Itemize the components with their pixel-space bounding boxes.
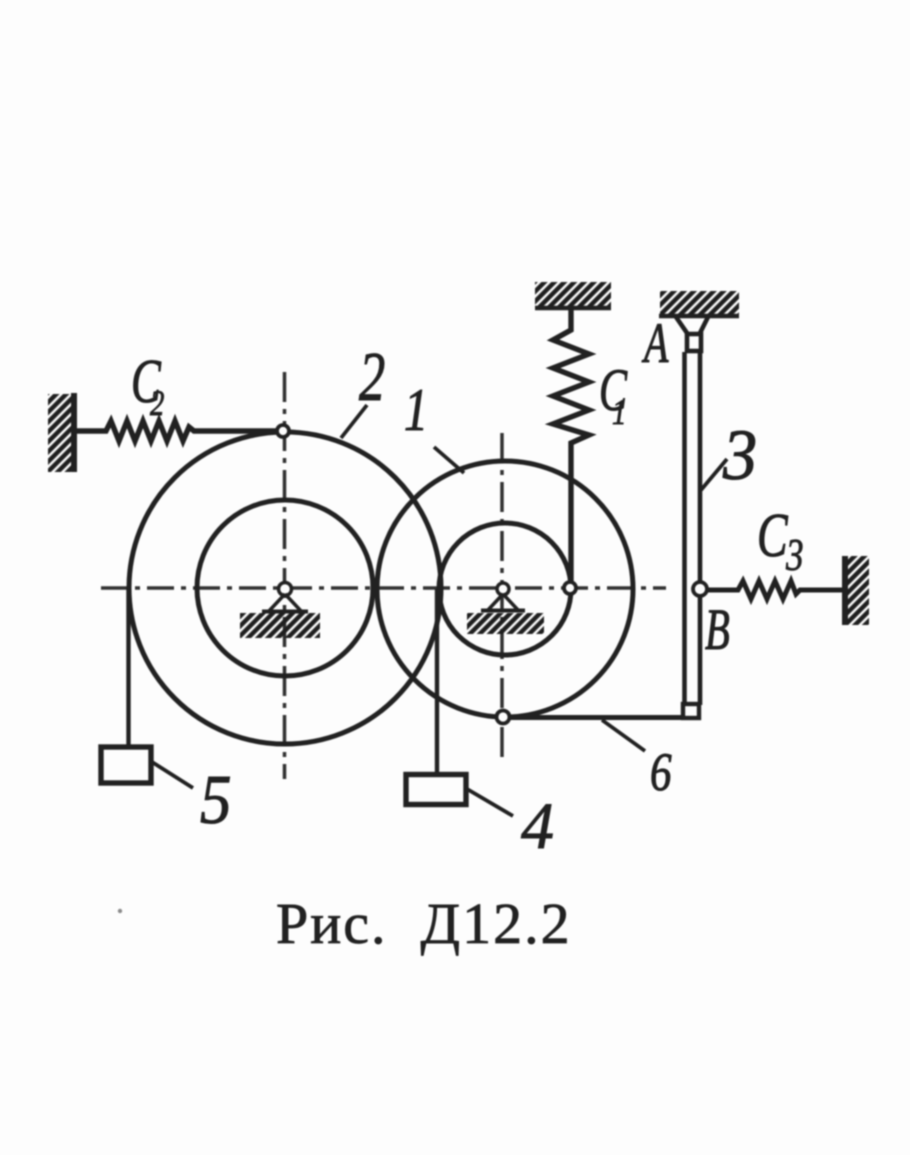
- stray speck: [118, 909, 122, 913]
- caption: [276, 891, 572, 956]
- svg-text:2: 2: [150, 384, 164, 424]
- label C2: [131, 347, 164, 424]
- svg-text:5: 5: [200, 762, 232, 839]
- cord to load 4: [435, 589, 439, 774]
- load block 4: [406, 775, 466, 805]
- label 2: [359, 339, 385, 416]
- label 4: [521, 790, 554, 863]
- pivot pin pulley 1: [467, 583, 544, 634]
- label C3: [757, 500, 804, 580]
- leader line to rod 3: [701, 459, 727, 490]
- centerline vertical pulley 1: [500, 433, 504, 760]
- svg-text:6: 6: [650, 741, 672, 802]
- pulley 2 outer rim: [129, 432, 441, 744]
- pulley 1 inner rim: [439, 523, 571, 655]
- pulley 2 inner rim: [197, 500, 373, 676]
- label B: [705, 597, 730, 662]
- svg-text:C: C: [757, 500, 788, 569]
- pivot cone at A: [676, 317, 708, 351]
- leader line to block 4: [467, 789, 513, 816]
- ceiling anchor for rod 3: [659, 291, 739, 316]
- spring C2: [76, 421, 277, 441]
- cord to load 5: [126, 588, 130, 747]
- svg-text:1: 1: [612, 393, 626, 433]
- spring C3: [707, 581, 843, 599]
- svg-text:A: A: [642, 311, 670, 375]
- pivot pin pulley 2: [240, 583, 320, 639]
- leader line to rod 6: [602, 720, 645, 751]
- label 1: [404, 377, 428, 443]
- label C1: [599, 358, 627, 433]
- node: C1 attachment on pulley 1 inner rim: [564, 582, 576, 594]
- svg-text:3: 3: [785, 530, 803, 580]
- wall anchor right: [845, 556, 869, 625]
- rod 3: [685, 352, 701, 705]
- leader line to block 5: [152, 762, 193, 788]
- label 5: [200, 762, 232, 839]
- svg-text:Рис. Д12.2: Рис. Д12.2: [276, 891, 572, 956]
- svg-text:3: 3: [722, 415, 757, 495]
- ceiling anchor for spring C1: [535, 282, 611, 308]
- rod 3 bottom block: [683, 704, 699, 718]
- pulley 1 outer rim: [377, 461, 633, 717]
- centerline vertical pulley 2: [283, 372, 287, 779]
- leader line to pulley 1 rim: [434, 447, 464, 473]
- rod 6: [509, 715, 693, 720]
- svg-text:1: 1: [404, 377, 428, 443]
- label A: [642, 311, 670, 375]
- svg-text:B: B: [705, 597, 730, 662]
- load block 5: [101, 747, 151, 783]
- leader line to pulley 2 rim: [341, 405, 367, 438]
- spring C1: [553, 308, 589, 583]
- label 3: [722, 415, 757, 495]
- label 6: [650, 741, 672, 802]
- node: C2 attachment on pulley 2 rim: [277, 425, 289, 437]
- centerline horizontal through both pulleys: [101, 586, 666, 590]
- wall anchor left: [48, 393, 74, 472]
- node B on rod 3: [693, 582, 707, 596]
- svg-text:2: 2: [359, 339, 385, 416]
- node: rod 6 joint on pulley 1 rim: [497, 711, 510, 724]
- svg-text:4: 4: [521, 790, 554, 863]
